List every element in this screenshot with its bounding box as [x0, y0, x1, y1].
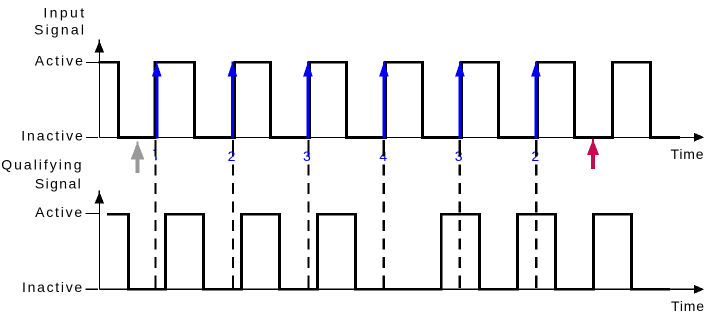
- svg-text:Active: Active: [35, 52, 85, 68]
- svg-text:Time: Time: [671, 298, 705, 314]
- svg-text:Qualifying: Qualifying: [1, 157, 83, 173]
- svg-text:Inactive: Inactive: [22, 279, 84, 295]
- svg-text:Input: Input: [43, 5, 86, 21]
- svg-text:Time: Time: [671, 146, 705, 162]
- svg-text:Active: Active: [35, 204, 84, 220]
- svg-text:2: 2: [228, 148, 236, 164]
- svg-text:Inactive: Inactive: [21, 128, 84, 144]
- svg-text:Signal: Signal: [34, 22, 86, 38]
- svg-text:3: 3: [303, 148, 311, 164]
- svg-text:Signal: Signal: [35, 175, 82, 191]
